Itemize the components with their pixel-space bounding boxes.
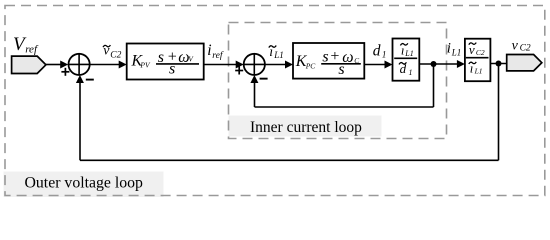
svg-text:ı: ı	[401, 42, 405, 57]
summing junction S1	[69, 54, 90, 75]
outer feedback wire J2 down	[498, 64, 500, 161]
wire S2 to block G2	[265, 64, 286, 66]
input port Vref (pentagon arrow)	[12, 56, 46, 73]
net label iL1 (tilde)	[269, 45, 284, 60]
inner feedback wire horizontal	[255, 106, 434, 108]
label Vref	[13, 34, 39, 55]
outer feedback wire horizontal	[80, 159, 499, 161]
svg-text:ref: ref	[212, 50, 224, 61]
svg-text:v: v	[103, 44, 110, 59]
wire S1 to block G1	[90, 64, 120, 66]
outer voltage loop label background	[4, 172, 164, 198]
svg-text:d: d	[373, 43, 381, 60]
S1 plus sign	[61, 68, 69, 76]
svg-text:i: i	[207, 42, 211, 59]
node J1	[431, 61, 437, 67]
svg-text:s: s	[322, 48, 328, 65]
svg-text:ref: ref	[25, 43, 39, 55]
svg-text:ı: ı	[269, 45, 273, 60]
inner current loop label background	[229, 116, 382, 137]
svg-text:1: 1	[409, 68, 413, 77]
block G2 KPC(s+wC)/s	[293, 43, 364, 79]
svg-text:L1: L1	[451, 48, 462, 58]
svg-text:PV: PV	[139, 61, 151, 70]
net label iL1	[447, 41, 461, 58]
wire G1 to summing junction S2	[204, 64, 237, 66]
inner feedback wire riser to S2	[254, 81, 256, 107]
outer voltage loop dashed boundary	[5, 6, 545, 196]
label vC2 output	[512, 38, 531, 53]
net label iref	[207, 42, 224, 61]
outer feedback wire riser to S1	[79, 81, 81, 160]
svg-text:C2: C2	[110, 51, 121, 61]
net label vC2 (tilde)	[103, 44, 122, 61]
net label d1	[373, 43, 387, 60]
svg-text:L1: L1	[474, 67, 483, 76]
svg-text:L1: L1	[404, 49, 413, 58]
S2 minus sign	[260, 78, 268, 80]
output port vC2 (pentagon arrow)	[507, 55, 542, 71]
S1 minus sign	[86, 79, 94, 81]
svg-text:1: 1	[382, 49, 387, 59]
block G4 vC2/iL1 transfer	[465, 39, 491, 81]
block G1 KPV(s+wV)/s	[127, 44, 204, 80]
wire G3 to node J1 to block G4	[419, 63, 457, 65]
svg-text:ı: ı	[470, 61, 474, 76]
wire input to summing junction S1	[46, 64, 61, 66]
svg-text:C2: C2	[520, 44, 531, 54]
svg-text:C2: C2	[476, 48, 485, 57]
svg-text:v: v	[512, 38, 519, 53]
node J2	[496, 61, 502, 67]
block G3 iL1/d1 transfer	[393, 39, 420, 81]
svg-text:Outer voltage loop: Outer voltage loop	[25, 175, 144, 192]
svg-text:i: i	[447, 41, 451, 57]
wire G4 to node J2 to output port	[490, 63, 506, 65]
svg-text:v: v	[469, 42, 475, 57]
S2 plus sign	[235, 67, 243, 75]
summing junction S2	[244, 54, 265, 75]
svg-text:PC: PC	[305, 62, 317, 71]
inner current loop dashed boundary	[229, 23, 447, 139]
svg-text:d: d	[400, 61, 407, 76]
svg-text:L1: L1	[273, 50, 284, 60]
inner feedback wire J1 down	[433, 64, 435, 107]
svg-text:Inner current loop: Inner current loop	[250, 119, 362, 136]
wire G2 to block G3	[364, 64, 385, 66]
